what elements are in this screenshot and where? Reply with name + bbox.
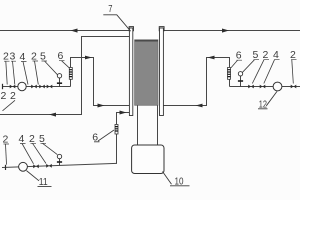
- leader 6 (right): [231, 60, 238, 68]
- stack pedestal: [138, 105, 158, 145]
- leader 5: [45, 61, 58, 75]
- pressure gauge 5 (left): [57, 74, 62, 87]
- leader 6 (bottom): [94, 130, 114, 142]
- valve: [47, 85, 53, 89]
- pump 12: [273, 82, 282, 91]
- leader 2b: [35, 61, 39, 85]
- leader 2 (bottom): [6, 144, 7, 165]
- arrow right on top-right line: [222, 29, 229, 33]
- stack left end plate: [129, 27, 133, 31]
- membrane stack 7: gray cell pack: [135, 40, 158, 106]
- label 11: [27, 171, 52, 188]
- leader hooks right row: [237, 59, 297, 62]
- flow element 6 (right): [228, 68, 231, 80]
- leader 4 (bottom): [22, 144, 34, 164]
- valve: [31, 85, 37, 89]
- wire left outlet from stack: plate to x81, down, out left edge: [0, 37, 129, 115]
- svg-text:2: 2: [1, 90, 7, 102]
- svg-text:2: 2: [10, 90, 16, 102]
- svg-text:2: 2: [31, 50, 37, 62]
- arrow right into stack (bottom feed): [120, 111, 127, 115]
- flow element 6 (bottom): [115, 125, 118, 135]
- pump 11: [19, 162, 28, 171]
- wire left circulation line: [2, 86, 71, 88]
- label 10: [163, 172, 190, 188]
- leader 4: [23, 62, 28, 85]
- valve: [46, 164, 52, 168]
- wire riser left loop: [70, 79, 72, 86]
- pressure gauge 5 (right): [238, 72, 243, 87]
- leader hooks left row: [4, 60, 65, 63]
- svg-text:6: 6: [236, 50, 242, 62]
- valve: [248, 85, 254, 89]
- arrow left on top-left line: [71, 29, 78, 33]
- svg-text:2: 2: [263, 49, 269, 61]
- pump (left circulation): [18, 82, 26, 90]
- leader 4 (right): [264, 60, 275, 84]
- svg-text:4: 4: [20, 51, 26, 63]
- pressure gauge 5 (bottom): [57, 154, 62, 165]
- label row right: 6 5 2 4 2: [236, 49, 296, 62]
- leader 5 (right): [242, 60, 255, 73]
- wire right riser: [229, 79, 231, 86]
- labels 2 2 below left line: [1, 90, 17, 102]
- valve: [33, 164, 39, 168]
- leader 6: [62, 61, 70, 68]
- leader hooks bottom row: [4, 142, 47, 145]
- label 12: [258, 91, 277, 110]
- node inlet tick left: [2, 84, 4, 89]
- node inlet tick bottom: [5, 165, 7, 170]
- arrow left into stack bottom-right: [196, 104, 203, 108]
- svg-text:4: 4: [273, 49, 279, 61]
- leader 2 (bottom b): [33, 143, 47, 163]
- valve: [260, 85, 266, 89]
- valve: [39, 85, 45, 89]
- leader 5 (bottom): [43, 143, 58, 154]
- label row left: 2 3 4 2 5 6: [3, 50, 64, 63]
- arrow right on feed branch: [85, 56, 92, 60]
- leader 2: [6, 61, 7, 84]
- tank 10: [132, 145, 164, 174]
- arrow left on outlet line: [49, 113, 56, 117]
- wire top-right product line: [163, 30, 300, 32]
- svg-text:5: 5: [253, 49, 259, 61]
- leader 3: [13, 61, 15, 84]
- wire left feed branch to stack bottom: [71, 58, 130, 106]
- valve on left line: [10, 85, 16, 89]
- svg-text:3: 3: [10, 51, 16, 63]
- arrow left on right feed branch: [208, 56, 215, 60]
- wire right circulation line: [230, 86, 301, 88]
- svg-text:5: 5: [40, 50, 46, 62]
- wire bottom loop line: [2, 163, 117, 167]
- leader 2 2: [3, 100, 16, 111]
- stack right end plate: [159, 27, 164, 31]
- leader 2 (right): [252, 60, 264, 84]
- svg-text:6: 6: [58, 50, 64, 62]
- svg-text:7: 7: [108, 3, 112, 15]
- wire bottom riser: [116, 134, 118, 164]
- wire top-left product line: [0, 30, 129, 32]
- label row bottom: 2 4 2 5: [3, 133, 46, 146]
- arrow right into stack bottom-left: [98, 104, 105, 108]
- wire bottom feed into stack: [117, 113, 130, 125]
- svg-text:2: 2: [290, 49, 296, 61]
- valve: [291, 85, 297, 89]
- flow element 6 (left): [69, 68, 72, 80]
- label 7: [103, 3, 130, 31]
- svg-text:2: 2: [3, 51, 9, 63]
- leader 2 (right b): [292, 60, 294, 84]
- wire right feed branch to stack bottom: [163, 58, 229, 106]
